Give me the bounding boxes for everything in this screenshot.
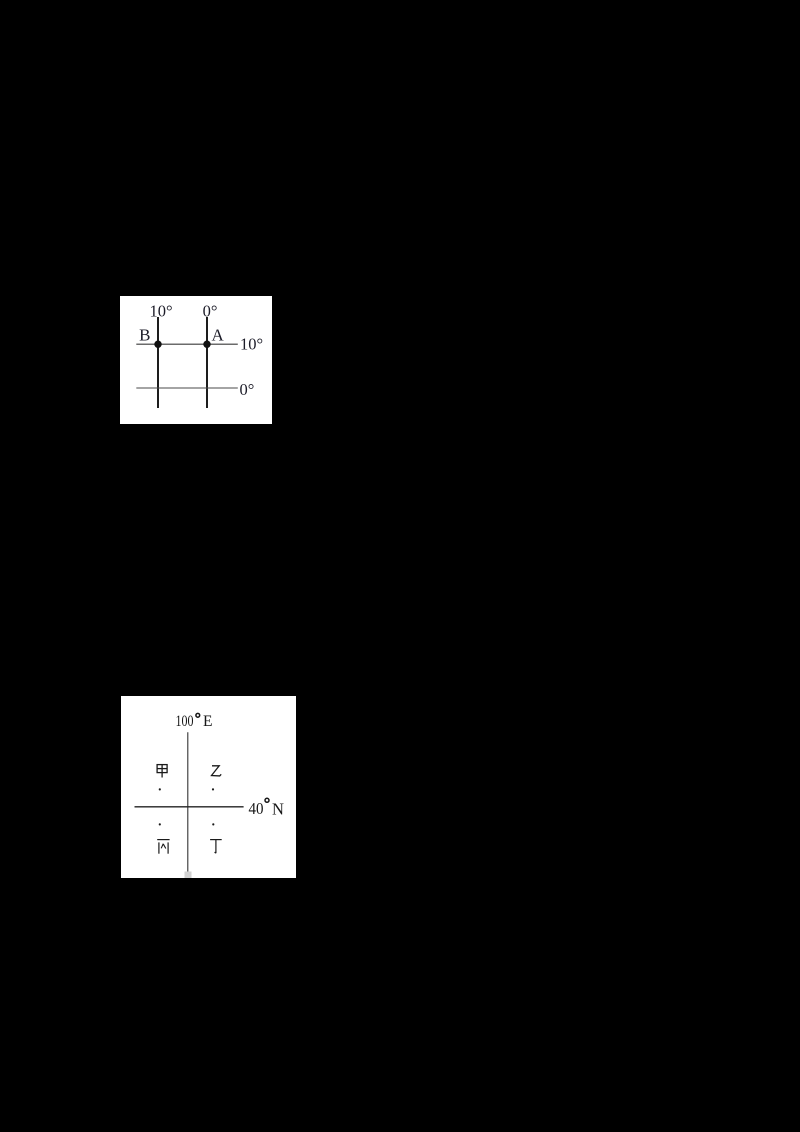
dot upper-right xyxy=(211,788,213,790)
point A dot xyxy=(203,340,210,347)
point B dot xyxy=(154,340,161,347)
svg-text:100: 100 xyxy=(175,713,193,730)
label 40 deg N xyxy=(248,798,284,818)
svg-text:N: N xyxy=(272,799,284,818)
svg-text:B: B xyxy=(139,325,150,344)
meridian 100E vertical line xyxy=(186,732,188,872)
meridian line 0 deg (right vertical) xyxy=(206,317,208,408)
parallel line 0 deg (lower horizontal) xyxy=(136,387,238,389)
dot lower-right xyxy=(212,823,214,825)
gray square at bottom of vertical line xyxy=(184,871,191,878)
character ding (lower-right) xyxy=(210,839,222,853)
character yi (upper-right) xyxy=(211,765,221,775)
figure 2: 100E / 40N cross with four quadrant points xyxy=(121,696,297,879)
character bing (lower-left) xyxy=(157,839,169,853)
parallel 40N horizontal line xyxy=(134,805,243,807)
character jia (upper-left) xyxy=(157,764,167,777)
svg-text:E: E xyxy=(203,713,212,730)
figure 1: latitude/longitude grid with points A and B xyxy=(120,296,273,425)
label 100 deg E xyxy=(175,713,212,730)
svg-text:0°: 0° xyxy=(239,379,254,398)
svg-text:0°: 0° xyxy=(202,301,217,320)
svg-text:10°: 10° xyxy=(240,334,263,353)
dot upper-left xyxy=(158,788,160,790)
svg-text:10°: 10° xyxy=(149,301,172,320)
svg-text:A: A xyxy=(211,325,224,344)
svg-text:40: 40 xyxy=(248,798,263,817)
parallel line 10 deg (upper horizontal) xyxy=(136,343,238,345)
dot lower-left xyxy=(158,823,160,825)
meridian line 10 deg (left vertical) xyxy=(157,317,159,408)
